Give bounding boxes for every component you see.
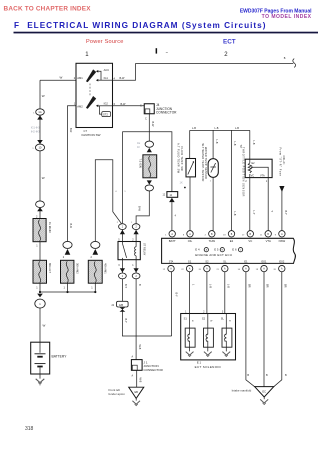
wire: 1J down to ECU BATT pin (171, 202, 173, 231)
arrows into ST relay (120, 230, 125, 234)
title underline (14, 32, 319, 34)
svg-text:30A AM2: 30A AM2 (75, 263, 79, 274)
svg-text:SL: SL (221, 317, 225, 321)
svg-text:ST RELAY: ST RELAY (142, 243, 146, 256)
wire: TPS VC to ECU (249, 178, 251, 231)
svg-text:B-Y: B-Y (174, 293, 177, 298)
wire: AM1 fuse loop to ST relay (95, 160, 121, 242)
svg-text:L-R: L-R (209, 284, 212, 288)
svg-text:IG2: IG2 (104, 102, 109, 106)
svg-text:BATTERY: BATTERY (52, 354, 68, 358)
solenoid No.1 (189, 314, 191, 329)
svg-text:S1: S1 (188, 260, 192, 264)
svg-text:<OIL-2>: <OIL-2> (282, 155, 286, 165)
arrow down out of IGN fuse (147, 180, 152, 184)
svg-text:STA: STA (169, 261, 174, 264)
svg-text:THW: THW (209, 239, 216, 243)
relay coil (135, 242, 137, 260)
wire: ECU E1 to intake ground (246, 272, 255, 387)
svg-text:From "ST-R" Fuse: From "ST-R" Fuse (278, 148, 282, 177)
svg-text:F: F (14, 21, 19, 30)
L-B sensor bus (190, 129, 250, 131)
svg-text:ENGINE AND ECT ECU: ENGINE AND ECT ECU (195, 253, 232, 257)
svg-text:7.5 IGN: 7.5 IGN (139, 159, 143, 168)
connector box 1J on BATT wire (167, 192, 178, 198)
arrow up below 1J (169, 198, 175, 202)
svg-text:S2: S2 (205, 260, 209, 264)
svg-text:1G: 1G (38, 111, 41, 114)
wire: fuse column joins bus (39, 242, 41, 292)
svg-text:B-W: B-W (120, 77, 126, 80)
wire: bus down to water temp sensor (212, 130, 214, 158)
svg-text:W: W (43, 324, 46, 328)
ST relay top connectors (122, 230, 136, 242)
svg-text:IG1-IH1: IG1-IH1 (31, 126, 41, 130)
svg-text:CONNECTOR: CONNECTOR (144, 368, 164, 372)
connector 1G (ellipse) (36, 109, 45, 115)
svg-text:BR: BR (266, 284, 269, 288)
svg-text:B-W: B-W (151, 122, 154, 128)
connector (ellipse) below IGN fuse (145, 185, 153, 191)
svg-text:VTA: VTA (266, 239, 271, 243)
svg-text:E 5: E 5 (214, 248, 219, 252)
svg-text:E 4: E 4 (195, 248, 200, 252)
arrow down to battery connector (37, 294, 43, 298)
svg-text:L-B: L-B (215, 140, 218, 144)
svg-text:1F: 1F (137, 145, 140, 149)
wire: IG1 to top rail (to ECT page) (113, 64, 294, 81)
connector (ellipse) above IGN fuse (145, 141, 153, 147)
water temp sensor capsule (208, 159, 218, 178)
fuse 7.5A IGN (hatched) (143, 155, 157, 178)
svg-text:ECT SOLENOID: ECT SOLENOID (195, 365, 222, 369)
svg-text:1K: 1K (180, 180, 183, 184)
svg-text:S1: S1 (184, 317, 188, 321)
svg-text:Power Source: Power Source (86, 39, 124, 45)
svg-text:BACK TO CHAPTER INDEX: BACK TO CHAPTER INDEX (4, 6, 92, 13)
svg-text:ST2: ST2 (103, 113, 108, 117)
svg-text:L-B: L-B (215, 127, 219, 130)
svg-text:E1: E1 (244, 260, 248, 264)
connector 2 (ellipse) (36, 201, 45, 208)
arrow up into fusible link (37, 207, 43, 211)
ignition switch C7 box (76, 63, 113, 127)
svg-text:ACC: ACC (104, 68, 110, 72)
svg-text:EB: EB (134, 390, 138, 394)
svg-text:IH2-IH3: IH2-IH3 (31, 129, 40, 133)
svg-text:L-B: L-B (235, 127, 239, 130)
svg-text:318: 318 (25, 426, 34, 432)
svg-text:IG1: IG1 (104, 76, 109, 80)
svg-text:NSW: NSW (279, 239, 286, 243)
svg-text:TO MODEL INDEX: TO MODEL INDEX (262, 14, 312, 20)
wire: bus down to A.T fluid temp SW (189, 130, 191, 158)
connector (ellipse) on AM1 fuse column (91, 241, 100, 248)
svg-text:1D: 1D (38, 147, 41, 150)
svg-text:S2: S2 (202, 317, 206, 321)
svg-text:ELECTRICAL WIRING DIAGRAM (Sys: ELECTRICAL WIRING DIAGRAM (System Circui… (27, 21, 266, 30)
svg-text:OIL: OIL (188, 239, 193, 243)
svg-text:VTA: VTA (260, 175, 265, 178)
svg-text:E02: E02 (279, 260, 284, 264)
wire: ECU S1 to solenoid (189, 272, 191, 314)
small junction mark (184, 187, 186, 189)
wire: bus down to throttle position sensor (249, 130, 251, 159)
splice bowtie to starter (120, 307, 126, 309)
svg-text:SL: SL (223, 260, 227, 264)
svg-text:Intake manifold: Intake manifold (232, 388, 252, 392)
wire: AM2 feed (x=67.5 column) (68, 106, 77, 242)
wire to battery (39, 308, 41, 342)
AM1 switch blade (86, 70, 96, 82)
wire: to ECU NSW (281, 190, 283, 231)
svg-text:BR: BR (248, 284, 251, 288)
svg-text:L-B: L-B (252, 141, 255, 145)
throttle position sensor box (245, 159, 272, 177)
svg-text:AM1: AM1 (77, 76, 83, 80)
svg-text:FL MAIN: FL MAIN (48, 222, 52, 233)
AM2 switch blade (86, 96, 96, 108)
ECT solenoid box (181, 314, 236, 360)
svg-text:WATER TEMP. SENSOR: WATER TEMP. SENSOR (204, 147, 208, 179)
ENGINE AND ECT ECU box (wavy right edge) (162, 238, 296, 263)
inline connector on starter wire (117, 301, 129, 307)
arrow up into connector 1G (37, 115, 43, 119)
wire: ECU E02 to intake ground (274, 272, 282, 387)
svg-text:80A ALT: 80A ALT (48, 263, 52, 273)
wire: TPS VTA to ECU (267, 178, 269, 231)
wire: ST relay contact out, to ECU STA via bottom run (122, 272, 171, 336)
svg-text:40A AM1: 40A AM1 (103, 263, 107, 274)
svg-text:W-B: W-B (138, 378, 141, 383)
svg-text:CONNECTOR: CONNECTOR (156, 110, 177, 114)
bus under fuses (40, 291, 95, 293)
svg-text:THROTTLE POSITION SENSOR: THROTTLE POSITION SENSOR (242, 147, 246, 197)
wire: fluid temp SW to ECU OIL (189, 177, 191, 231)
svg-text:VC: VC (248, 239, 252, 243)
wire: IG2 to junction connector J4 (113, 105, 145, 107)
svg-text:L-B: L-B (192, 127, 196, 130)
wire: ECU SL to solenoid (225, 272, 227, 314)
wire: J1 to body ground (136, 370, 138, 387)
wire: ECU E01 to intake ground (263, 272, 265, 387)
svg-text:VC: VC (251, 175, 255, 178)
fuse 40A AM1 (hatched) (88, 260, 102, 283)
svg-text:B-R: B-R (69, 128, 72, 133)
svg-text:12B: 12B (119, 304, 124, 307)
connector to battery (ellipse) (35, 299, 45, 308)
connector 1D (ellipse) (35, 144, 44, 151)
wire: bus down to ECU E2 (231, 130, 233, 230)
wire: J4 down to IGN fuse (148, 114, 150, 142)
ground EB (front left fender apron) (129, 387, 144, 398)
svg-text:BATT: BATT (169, 239, 176, 243)
svg-text:fender apron: fender apron (109, 392, 126, 396)
ST relay bottom connectors (122, 260, 136, 273)
fusible link FL MAIN (hatched) (33, 219, 46, 242)
connector (ellipse) on AM2 column (63, 241, 72, 248)
arrow up into 40A AM1 fuse (93, 249, 99, 255)
svg-text:EC: EC (262, 389, 266, 393)
wire: battery W feed to ignition AM1 (left column x=40) (40, 80, 76, 218)
ground below battery (39, 374, 41, 379)
svg-text:C: C (140, 104, 142, 107)
svg-text:IGNITION SW: IGNITION SW (82, 133, 101, 137)
svg-text:E01: E01 (262, 260, 267, 264)
svg-text:B-W: B-W (138, 206, 141, 212)
svg-text:W-B: W-B (138, 345, 141, 350)
svg-text:B-W: B-W (121, 103, 127, 106)
wire: ECU S2 to solenoid (206, 272, 209, 314)
svg-text:B-R: B-R (69, 224, 72, 229)
ST2 terminal in box (99, 106, 101, 114)
svg-text:B-Y: B-Y (124, 319, 127, 324)
battery (31, 342, 50, 374)
mechanical link dashes (89, 84, 91, 96)
svg-text:L-Y: L-Y (252, 211, 255, 215)
wire: ST relay coil return to ground via J1 (135, 279, 137, 360)
svg-text:AM2: AM2 (77, 104, 83, 108)
arrow up into IGN fuse (147, 148, 152, 152)
svg-text:C: C (145, 117, 147, 120)
svg-text:L-B: L-B (233, 212, 236, 216)
wire: IGN fuse to ST relay coil (136, 191, 149, 224)
A.T fluid temp SW box (186, 159, 196, 177)
svg-text:W: W (60, 76, 63, 80)
ECU top pin circles (169, 231, 175, 237)
svg-text:W: W (42, 176, 45, 180)
svg-text:B-Y: B-Y (284, 211, 287, 216)
ECU bottom pin circles (168, 265, 174, 271)
arrow down from page (279, 186, 284, 192)
wire: water temp sensor to ECU THW (212, 177, 213, 230)
svg-text:ECT: ECT (223, 38, 236, 45)
svg-text:W: W (42, 94, 45, 98)
svg-text:E 1: E 1 (197, 361, 202, 365)
solenoid SL (225, 314, 227, 329)
continuation squiggle at rail end (293, 59, 296, 68)
svg-text:FLUID TEMP. SW: FLUID TEMP. SW (180, 147, 184, 172)
arrow up into 30A AM2 fuse (65, 249, 71, 255)
svg-text:B-Y: B-Y (124, 284, 127, 289)
wire: BATT loop over to ST relay (123, 132, 172, 224)
svg-text:BR: BR (284, 284, 287, 288)
fuse 80A ALT (hatched) (33, 260, 47, 283)
section divider tick (156, 48, 158, 53)
fuse 30A AM2 (hatched) (61, 260, 74, 283)
svg-text:A.T FLUID TEMP. SW: A.T FLUID TEMP. SW (177, 143, 181, 174)
solenoid No.2 (207, 314, 209, 329)
relay contact (122, 242, 126, 260)
ground EC (intake manifold) (255, 387, 274, 397)
svg-text:1E: 1E (137, 141, 140, 145)
ST relay box (118, 242, 140, 260)
svg-text:E 6: E 6 (232, 248, 237, 252)
svg-text:L-B: L-B (233, 142, 236, 146)
svg-text:L-B: L-B (227, 284, 230, 288)
svg-text:E2: E2 (230, 239, 234, 243)
arrow down into connector 1D (37, 140, 43, 144)
